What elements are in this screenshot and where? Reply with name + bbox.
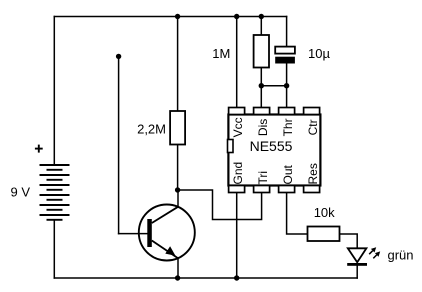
resistor 2,2M — [170, 111, 185, 145]
transistor Q1 emitter lead — [152, 241, 178, 259]
LED D1 cathode bar — [347, 263, 367, 266]
svg-text:grün: grün — [388, 248, 414, 263]
wire Vcc feed — [236, 17, 238, 108]
wire battery - to bottom rail — [53, 220, 55, 278]
pin box Tri — [254, 186, 270, 193]
battery plus sign — [35, 145, 43, 153]
wire top rail to R 2,2M — [177, 17, 179, 112]
node junction top rail / Vcc — [234, 14, 239, 19]
capacitor 10µ positive plate — [275, 47, 295, 54]
svg-text:Thr: Thr — [281, 118, 295, 136]
svg-text:NE555: NE555 — [250, 138, 293, 154]
node Gnd / bottom rail — [234, 275, 239, 280]
op-amp U1 NE555 body — [228, 115, 320, 186]
svg-text:Dis: Dis — [256, 119, 270, 136]
svg-text:Ctr: Ctr — [306, 119, 320, 135]
LED D1 light arrow 1 — [369, 247, 376, 254]
transistor Q1 base bar — [147, 219, 152, 247]
svg-text:10k: 10k — [314, 205, 335, 220]
wire top rail to R 1M — [260, 17, 262, 36]
node emitter / bottom rail — [175, 275, 180, 280]
wire C 10µ to Thr pin — [286, 64, 288, 108]
pin box Res — [304, 186, 320, 193]
svg-text:Vcc: Vcc — [231, 117, 245, 137]
pin box Thr — [279, 108, 295, 115]
node junction C 10µ / link — [284, 83, 289, 88]
pin box Vcc — [229, 108, 245, 115]
transistor Q1 circle — [139, 205, 195, 261]
wire top rail to C 10µ — [286, 17, 288, 47]
resistor 1M — [254, 35, 269, 68]
svg-text:Res: Res — [306, 163, 320, 184]
pin box Ctr — [304, 108, 320, 115]
transistor Q1 collector lead — [152, 207, 178, 223]
wire collector node to Tri pin — [178, 190, 262, 220]
LED D1 triangle — [348, 248, 367, 262]
node base feed terminal — [116, 54, 121, 59]
svg-text:Tri: Tri — [256, 171, 270, 185]
node junction R 1M / link — [259, 83, 264, 88]
wire R 2,2M to collector node — [177, 145, 179, 191]
wire base feed vertical — [118, 56, 120, 233]
svg-text:10µ: 10µ — [308, 46, 330, 61]
transistor Q1 emitter arrowhead — [165, 246, 175, 256]
svg-text:Gnd: Gnd — [231, 162, 245, 185]
wire top rail — [54, 16, 286, 18]
node junction top rail / R 2,2M — [175, 14, 180, 19]
wire Gnd pin to bottom rail — [236, 193, 238, 279]
wire Dis-Thr link — [261, 85, 286, 87]
svg-text:9 V: 9 V — [11, 185, 31, 200]
svg-text:2,2M: 2,2M — [137, 122, 166, 137]
wire base feed horizontal — [119, 233, 148, 235]
wire collector — [177, 190, 179, 207]
pin box Dis — [254, 108, 270, 115]
pin box Out — [279, 186, 295, 193]
node collector junction — [175, 187, 180, 192]
svg-text:1M: 1M — [212, 46, 230, 61]
capacitor 10µ negative plate — [275, 57, 295, 64]
op-amp U1 notch — [228, 140, 234, 153]
wire R 10k to LED — [340, 234, 358, 248]
node junction top rail / R 1M — [259, 14, 264, 19]
pin box Gnd — [229, 186, 245, 193]
wire bottom rail — [54, 277, 357, 279]
battery 9V plates — [40, 165, 70, 220]
wire left vertical to battery + — [53, 17, 55, 166]
wire emitter to bottom rail — [177, 258, 179, 278]
wire R 1M to Dis pin — [260, 68, 262, 108]
resistor 10k — [308, 227, 340, 242]
wire Out pin to R 10k — [287, 193, 308, 235]
LED D1 light arrow 2 — [373, 251, 380, 258]
wire LED cathode to bottom rail — [356, 266, 358, 279]
svg-text:Out: Out — [281, 164, 295, 184]
